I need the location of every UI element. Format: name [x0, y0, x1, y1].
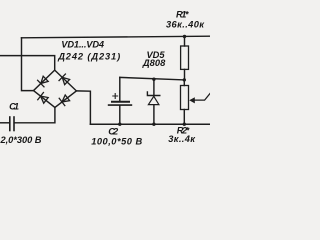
svg-text:VD1...VD4: VD1...VD4: [61, 39, 105, 49]
svg-text:Д808: Д808: [142, 58, 166, 68]
svg-text:C2: C2: [108, 126, 119, 136]
svg-text:Д242 (Д231): Д242 (Д231): [57, 52, 120, 62]
svg-text:R1*: R1*: [176, 9, 189, 19]
svg-text:36к..40к: 36к..40к: [166, 19, 205, 29]
svg-text:100,0*50 В: 100,0*50 В: [91, 136, 142, 146]
svg-text:2,0*300 В: 2,0*300 В: [0, 135, 42, 145]
svg-text:C1: C1: [9, 102, 19, 112]
svg-text:3к..4к: 3к..4к: [168, 134, 196, 144]
